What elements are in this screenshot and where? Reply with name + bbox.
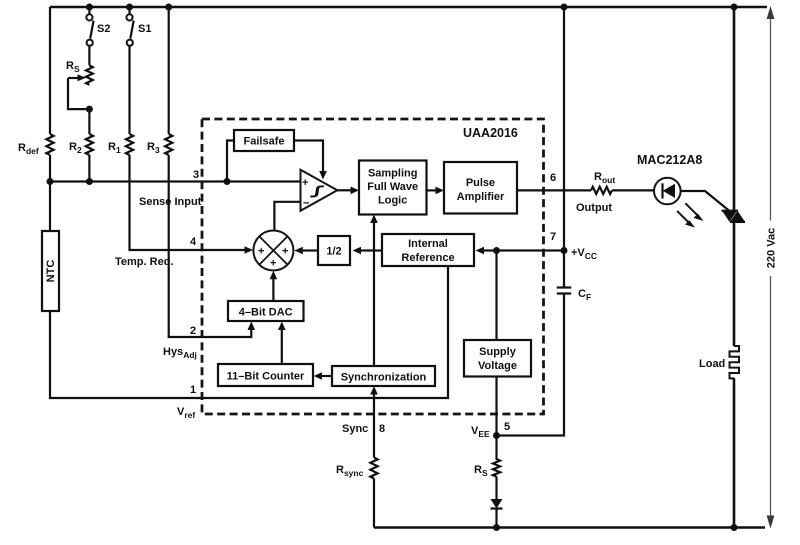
arrowhead into summing right [294, 247, 303, 255]
wire S1 to R1 [128, 46, 130, 134]
wire comparator minus input [274, 202, 300, 232]
arrowhead into sampling bottom [370, 215, 378, 224]
wire intref to 1/2 [360, 249, 382, 251]
node top rail VCC [561, 4, 568, 11]
svg-text:1/2: 1/2 [326, 246, 341, 258]
wire left column top [49, 7, 51, 134]
wire R2 bottom [88, 155, 90, 182]
wire supply voltage to pin 5 [495, 377, 497, 436]
op-amp comparator U1 [301, 170, 338, 211]
LED light arrow lower [677, 211, 695, 228]
svg-text:8: 8 [379, 423, 385, 435]
svg-text:4: 4 [190, 236, 197, 248]
wire DAC to summing [272, 278, 274, 302]
svg-text:+: + [258, 246, 264, 258]
wire pin 8 sync [373, 393, 375, 458]
block Failsafe [234, 130, 294, 151]
node pin3 failsafe tap [224, 178, 231, 185]
svg-text:2: 2 [190, 325, 196, 337]
arrowhead into synchronization bottom [370, 386, 378, 395]
svg-text:Supply: Supply [479, 346, 517, 358]
block 4-Bit DAC [228, 301, 304, 321]
resistor R3 [147, 134, 172, 155]
arrowhead into DAC bottom left [248, 322, 256, 331]
wire RS to diode [495, 477, 497, 500]
mains measure line 220 Vac [766, 6, 778, 529]
svg-text:Output: Output [576, 202, 612, 214]
switch S2 [86, 7, 110, 46]
wire pin 2 HysAdj from R3 [169, 155, 252, 337]
wire triac to load [733, 222, 736, 346]
diode D1 [491, 499, 503, 509]
block Supply Voltage [464, 340, 531, 377]
svg-text:Full Wave: Full Wave [367, 181, 418, 193]
node top rail mains [731, 4, 738, 11]
block Pulse Amplifier [444, 162, 517, 214]
wire top rail [50, 6, 767, 9]
node top rail R3 [165, 4, 172, 11]
opto LED [654, 178, 681, 205]
wire sync to sampling [373, 222, 375, 366]
svg-text:+: + [302, 177, 308, 189]
wire Rdef bottom [49, 155, 51, 182]
switch S1 [126, 7, 151, 46]
block Internal Reference [382, 234, 474, 266]
wire pin 3 sense input [50, 180, 301, 182]
svg-text:Load: Load [699, 358, 725, 370]
svg-text:S1: S1 [138, 23, 151, 35]
wire R3 column top [168, 7, 170, 134]
resistor RS bottom [474, 436, 500, 479]
svg-text:Temp. Red.: Temp. Red. [115, 256, 173, 268]
arrowhead into summing bottom [270, 271, 278, 280]
triac Q1 [722, 211, 746, 222]
node top rail S2 [86, 4, 93, 11]
svg-text:Synchronization: Synchronization [341, 372, 427, 384]
svg-text:UAA2016: UAA2016 [463, 126, 518, 140]
resistor R2 [69, 134, 93, 155]
wire 1/2 to summing [302, 249, 318, 251]
svg-text:4–Bit DAC: 4–Bit DAC [239, 307, 293, 319]
block Synchronization [332, 366, 435, 386]
svg-text:Sense Input: Sense Input [139, 196, 202, 208]
capacitor CF [557, 288, 591, 303]
node bottom rail load [731, 524, 738, 531]
arrowhead into counter right [314, 372, 323, 380]
arrowhead into sampling left [351, 187, 360, 195]
arrowhead into 1/2 right [353, 247, 362, 255]
wire VCC rail vertical [563, 7, 565, 288]
svg-text:NTC: NTC [45, 260, 57, 283]
node top rail S1 [126, 4, 133, 11]
wire sampling to pulse [427, 189, 437, 191]
wire Rout to LED [612, 189, 655, 191]
wire VCC branch to supply voltage [495, 251, 497, 341]
node VEE pin5 [493, 432, 500, 439]
wire synchronization to counter [321, 375, 332, 377]
block 1/2 divider [318, 236, 350, 265]
svg-text:5: 5 [504, 421, 510, 433]
block 11-Bit Counter [218, 364, 313, 386]
svg-text:Logic: Logic [378, 195, 407, 207]
potentiometer RS [66, 60, 93, 109]
svg-text:6: 6 [550, 172, 556, 184]
svg-text:1: 1 [190, 384, 196, 396]
resistor Rsync [336, 458, 378, 479]
node pin3 left [47, 178, 54, 185]
svg-text:Failsafe: Failsafe [244, 136, 285, 148]
arrowhead into DAC bottom right [278, 322, 286, 331]
svg-text:Internal: Internal [408, 238, 448, 250]
svg-text:Pulse: Pulse [466, 177, 495, 189]
svg-text:+: + [270, 258, 276, 270]
wire diode to bottom rail [495, 509, 497, 528]
node VCC branch [493, 247, 500, 254]
wire load to bottom rail [733, 378, 736, 527]
node pot wiper junction [86, 106, 93, 113]
arrowhead into pulse amp [436, 187, 445, 195]
wire pin 4 Temp Red from R1 [130, 155, 246, 250]
svg-text:S2: S2 [97, 23, 110, 35]
arrowhead into comparator top [319, 171, 327, 180]
wire failsafe left [227, 141, 234, 182]
node pin3 R2 [86, 178, 93, 185]
wire counter to DAC [281, 328, 283, 364]
svg-text:+: + [282, 246, 288, 258]
svg-text:3: 3 [193, 169, 199, 181]
wire failsafe right to comparator [294, 141, 323, 173]
svg-text:Sampling: Sampling [368, 168, 418, 180]
summing node [253, 231, 293, 271]
IC boundary dashed box UAA2016 [202, 119, 544, 414]
svg-text:7: 7 [550, 231, 556, 243]
svg-text:11–Bit Counter: 11–Bit Counter [227, 371, 305, 383]
node pin7 [561, 247, 568, 254]
svg-text:Amplifier: Amplifier [457, 191, 505, 203]
block Sampling Full Wave Logic [359, 161, 427, 215]
wire NTC bottom to pin 1 [50, 266, 448, 398]
wire VEE to CF column [497, 294, 565, 436]
load element [699, 346, 739, 378]
svg-text:Reference: Reference [401, 252, 454, 264]
wire LED to triac gate [681, 191, 730, 211]
arrowhead into summing node left [245, 246, 254, 254]
wire S2 to pot [88, 46, 90, 66]
wire pin 6 output [517, 189, 591, 191]
wire comparator output [337, 189, 351, 191]
wire Rsync to bottom rail [373, 479, 375, 528]
node bottom rail RS [493, 524, 500, 531]
wire NTC top [49, 182, 51, 232]
resistor Rdef [18, 134, 54, 156]
svg-text:−: − [303, 198, 309, 210]
LED light arrow upper [685, 203, 703, 221]
wire bottom rail [374, 526, 765, 529]
thermistor NTC [42, 231, 59, 311]
wire mains right column top [733, 7, 736, 211]
svg-text:Sync: Sync [342, 423, 368, 435]
wire pot to R2 [88, 109, 90, 134]
wire pin7 VCC to internal reference [483, 249, 564, 251]
arrowhead into intref right [476, 247, 485, 255]
svg-text:Voltage: Voltage [478, 360, 517, 372]
svg-text:220 Vac: 220 Vac [766, 228, 778, 268]
svg-text:MAC212A8: MAC212A8 [637, 153, 702, 167]
resistor R1 [108, 134, 133, 155]
resistor Rout [591, 171, 615, 194]
